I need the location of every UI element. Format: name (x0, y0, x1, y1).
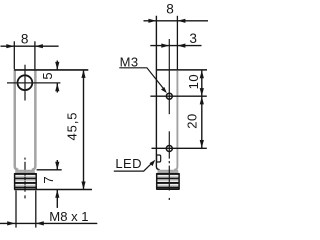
svg-text:10: 10 (186, 74, 201, 89)
hole 1 horizontal centerline / 10-20 boundary (150, 95, 206, 97)
svg-text:M3: M3 (120, 54, 139, 69)
left view body (gray housing sides) (15, 70, 36, 170)
left view vertical centerline (24, 65, 26, 199)
dimension 3 (hole offset, right view) (150, 31, 201, 48)
left view horizontal centerline (7, 82, 60, 84)
dimension 45,5 (left view overall height) (65, 70, 86, 190)
dimension 8 (left view) (1, 32, 59, 70)
dimension 5 (circle center from top, left view) (40, 61, 59, 93)
dimension 7 (thread length, left view) (37, 160, 62, 208)
svg-text:7: 7 (41, 176, 56, 183)
M3 hole 1 (166, 93, 172, 99)
M3 hole 2 (166, 146, 172, 152)
label LED with leader (114, 156, 156, 171)
right view body left edge (156, 16, 159, 170)
right view body top edge + 10 extension (156, 69, 207, 71)
hole 2 horizontal centerline / 20 bottom boundary (152, 147, 207, 149)
svg-text:5: 5 (40, 72, 55, 79)
svg-text:20: 20 (184, 113, 199, 128)
svg-text:8: 8 (21, 32, 29, 47)
left view sensing circle (18, 75, 33, 90)
right view threaded connector (156, 171, 179, 190)
dimension 10 and 20 (hole positions, right view) (184, 70, 204, 148)
dimension M8 x 1 (thread, bottom left) (0, 191, 97, 228)
dimension 8 (right view) (144, 2, 209, 70)
svg-text:45,5: 45,5 (65, 112, 80, 141)
left view bottom edge + 45,5 bottom extension line (14, 189, 92, 191)
right view hole centerline (vertical) (168, 39, 170, 200)
right view body right edge (gray) (174, 71, 177, 170)
left view threaded connector M8 barrel (14, 171, 36, 190)
left view body top edge (14, 69, 88, 71)
svg-text:M8 x 1: M8 x 1 (49, 209, 88, 224)
svg-text:8: 8 (166, 2, 174, 17)
svg-text:LED: LED (115, 156, 141, 171)
label M3 with leader (119, 54, 167, 93)
LED window (157, 155, 161, 162)
svg-text:3: 3 (189, 31, 197, 46)
